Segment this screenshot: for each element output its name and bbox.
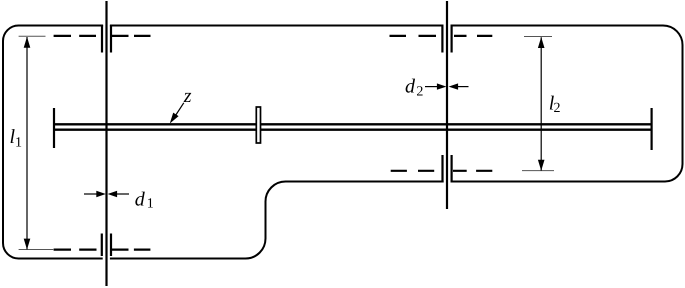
edge gap at bottom-right bolt [444,180,451,183]
bolt ticks top-right [442,25,451,53]
dimension d1 right arrow [108,191,118,197]
dimension d1 left arrow [96,191,106,197]
gauge line (dashed) bottom-left row [54,249,151,251]
svg-text:d: d [405,75,416,97]
bolt centerline right [446,1,448,209]
beam splice rectangle [256,107,260,143]
dimension l2 arrow down [538,160,545,171]
bolt ticks top-left [102,25,111,53]
beam end tick right [650,108,652,150]
dimension l2 arrow up [538,37,545,48]
dimension d1 left line [84,193,98,195]
beam line z upper [54,123,652,125]
svg-text:1: 1 [147,197,154,212]
witness line l2 bottom [522,170,554,172]
svg-text:z: z [183,85,192,107]
bolt ticks bottom-right [443,155,452,183]
dimension l1 arrow down [24,239,31,250]
svg-text:2: 2 [554,101,561,116]
gauge line (dashed) top-right row [390,35,493,37]
dimension l1 line [26,37,28,249]
gauge line (dashed) bottom-right row [391,170,493,172]
gauge line (dashed) top-left row [54,35,151,37]
dimension d2 right arrow [449,83,459,89]
witness line l1 top [19,35,46,37]
dimension d2 right line [457,86,469,88]
edge gap at bottom-left bolt [103,257,110,260]
dimension d2 left arrow [437,83,447,89]
witness line l2 top [524,36,552,38]
dimension d2 left line [425,86,438,88]
witness line l1 bottom [19,249,54,251]
dimension l2 line [540,37,542,170]
svg-text:d: d [135,189,146,211]
bolt ticks bottom-left [102,234,111,257]
edge gap at top-right bolt [444,24,451,27]
edge gap at top-left bolt [103,24,110,27]
svg-text:1: 1 [15,136,22,151]
svg-text:2: 2 [416,85,423,100]
dimension d1 right line [116,193,130,195]
beam end tick left [53,108,55,148]
bolt centerline left [105,1,107,286]
beam line z lower [54,129,652,131]
dimension l1 arrow up [24,37,31,48]
leader arrow z [176,103,184,116]
